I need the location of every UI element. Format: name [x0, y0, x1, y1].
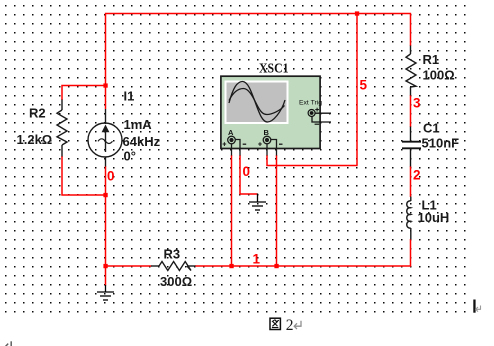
svg-text:XSC1: XSC1 — [259, 62, 289, 77]
wire bottom horizontal right of R3 (node 1) — [195, 265, 411, 267]
wire below L1 — [410, 239, 412, 266]
inductor L1 — [407, 197, 411, 240]
svg-text:I1: I1 — [124, 89, 135, 104]
svg-text:2: 2 — [286, 317, 294, 334]
pilcrow bottom right — [476, 306, 481, 312]
wire node 2 (C1 to L1) — [410, 166, 412, 197]
wire ground stub bottom-left — [105, 266, 107, 286]
svg-text:5: 5 — [360, 78, 368, 93]
caption figure 2 glyph — [270, 318, 280, 329]
svg-text:64kHz: 64kHz — [123, 134, 161, 149]
svg-text:0: 0 — [107, 169, 115, 184]
resistor R2 — [57, 100, 67, 157]
svg-text:2: 2 — [413, 168, 421, 183]
wire A- to middle ground (node 0) — [240, 155, 258, 194]
scope screen sine trace 1 — [229, 82, 285, 123]
wire top horizontal — [105, 13, 411, 15]
svg-text:R1: R1 — [423, 52, 440, 67]
Ext Trig terminal — [308, 108, 331, 125]
svg-text:R2: R2 — [29, 106, 46, 121]
wire bottom horizontal left of R3 — [105, 265, 152, 267]
terminal B leads — [267, 140, 277, 156]
wire left vertical (top node 5 side) — [105, 14, 107, 110]
svg-text:300Ω: 300Ω — [160, 274, 192, 289]
resistor R1 — [406, 46, 416, 96]
capacitor C1 — [402, 127, 421, 167]
junction R2 bottom — [103, 193, 107, 197]
text cursor bottom right — [473, 300, 475, 313]
junction R2 top — [103, 83, 107, 87]
wire node 3 (R1 to C1) — [410, 95, 412, 127]
svg-text:0°: 0° — [124, 149, 136, 164]
wire A+ down to node 1 — [231, 155, 233, 266]
svg-text:R3: R3 — [164, 247, 181, 262]
junction B- node 1 — [274, 264, 278, 268]
resistor R3 — [151, 262, 196, 271]
wire B+ to node 5 — [267, 155, 358, 166]
oscilloscope XSC1 box — [221, 76, 320, 148]
svg-text:1: 1 — [253, 252, 261, 267]
wire R2 top branch — [62, 86, 106, 101]
junction A+ node 1 — [229, 264, 233, 268]
ground middle — [249, 194, 266, 211]
junction top node 5 — [355, 11, 359, 15]
svg-text:1.2kΩ: 1.2kΩ — [17, 132, 53, 147]
svg-text:0: 0 — [243, 164, 251, 179]
caption pilcrow — [294, 321, 301, 329]
wire right vertical above R1 — [410, 14, 412, 47]
wire R2 bottom branch — [62, 156, 106, 195]
terminal A leads — [232, 140, 241, 156]
wire node 5 vertical — [356, 14, 358, 166]
pilcrow bottom left (partial) — [5, 341, 11, 346]
svg-text:510nF: 510nF — [422, 136, 460, 151]
svg-text:100Ω: 100Ω — [423, 68, 455, 83]
junction bottom-left ground — [103, 264, 107, 268]
scope screen sine trace 2 — [229, 89, 285, 115]
svg-text:Ext Trig: Ext Trig — [299, 100, 322, 107]
svg-text:C1: C1 — [423, 121, 440, 136]
svg-text:1mA: 1mA — [124, 117, 153, 132]
wire source bottom (node 0) — [105, 166, 107, 266]
ground bottom-left — [97, 285, 114, 300]
wire B- down to node 1 — [276, 155, 278, 266]
svg-text:3: 3 — [413, 96, 421, 111]
svg-text:10uH: 10uH — [418, 210, 450, 225]
current source I1 — [88, 109, 122, 167]
